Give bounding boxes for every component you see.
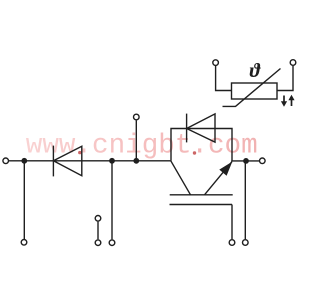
wire up from node at x=136 to top terminal: [135, 120, 137, 160]
diode D1 triangle: [53, 146, 81, 175]
terminal 5 bottom x=112: [109, 240, 115, 246]
terminal 6 gate: [229, 240, 235, 246]
IGBT Q1 body bar: [170, 194, 233, 196]
diode D2 triangle: [187, 114, 215, 142]
diode D2 freewheel left leg: [171, 129, 187, 161]
terminal 4 stub bottom: [95, 240, 101, 246]
terminal 2 bottom x=24: [21, 240, 27, 246]
IGBT Q1 collector slant: [171, 161, 191, 195]
node junction x=136: [133, 158, 139, 164]
node junction x=112: [109, 158, 115, 164]
diode D2 axis wire: [187, 128, 215, 130]
wire down from node at x=112: [111, 161, 113, 240]
wire aux stub at x=98: [97, 222, 99, 240]
terminal 10 thermistor right: [290, 60, 296, 66]
node junction emitter x=246: [243, 158, 249, 164]
IGBT Q1 emitter arrowhead: [219, 162, 232, 176]
terminal 3 stub top: [95, 216, 101, 222]
NTC up arrow: [288, 95, 294, 106]
diode D1 cathode bar: [52, 146, 54, 177]
terminal 8 emitter right: [260, 158, 266, 164]
terminal 7 emitter aux: [243, 240, 249, 246]
terminal 1 left: [3, 158, 9, 164]
thermistor right wire: [277, 66, 293, 91]
wire gate down to terminal: [231, 205, 233, 240]
svg-text:ϑ: ϑ: [250, 60, 262, 82]
terminal 11 top middle: [134, 114, 140, 120]
IGBT Q1 emitter arrow line: [205, 162, 233, 195]
thermistor diagonal: [223, 69, 281, 107]
thermistor left wire: [216, 66, 232, 91]
diode D2 cathode bar: [186, 114, 188, 143]
wire main collector rail: [9, 160, 171, 162]
wire emitter aux down: [244, 161, 246, 239]
node junction x=24: [21, 158, 27, 164]
wire down from node at x=24: [23, 161, 25, 239]
terminal 9 thermistor left: [213, 60, 219, 66]
wire emitter rail: [231, 160, 259, 162]
diode D2 right leg: [215, 129, 232, 162]
IGBT Q1 gate plate: [170, 204, 233, 206]
thermistor RT body: [232, 83, 278, 99]
NTC down arrow: [281, 96, 287, 107]
